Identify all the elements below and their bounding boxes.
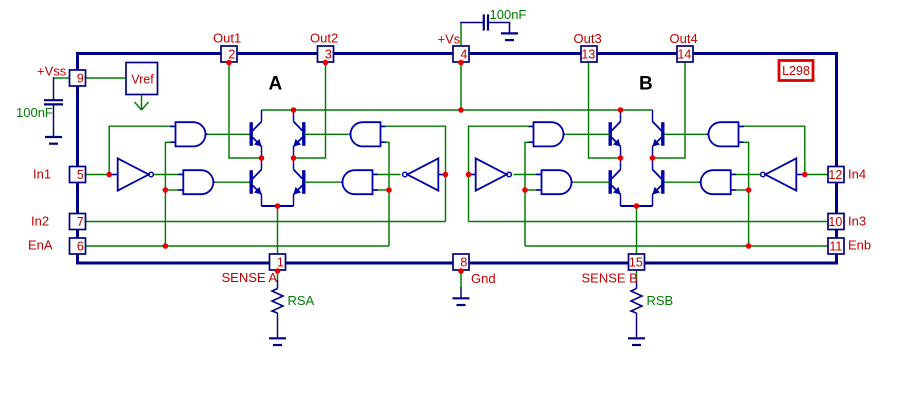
svg-text:Out1: Out1 bbox=[213, 31, 241, 46]
inverter U6A (In2) bbox=[403, 158, 445, 190]
wire In4 up branch bbox=[744, 126, 805, 174]
node Enb junction bbox=[746, 243, 752, 249]
node EnA branch to U5A bbox=[386, 187, 392, 193]
wire Out1 pin2 down bbox=[229, 63, 262, 159]
svg-text:Out4: Out4 bbox=[670, 31, 698, 46]
svg-text:Vref: Vref bbox=[131, 73, 154, 87]
transistor Q5 (B top-left) bbox=[609, 122, 621, 147]
svg-text:L298: L298 bbox=[782, 64, 810, 78]
pin 4 box bbox=[453, 46, 469, 62]
Q2 emitter lead bbox=[293, 147, 295, 159]
and-gate U2A top-left bbox=[170, 122, 208, 146]
svg-text:EnA: EnA bbox=[28, 238, 53, 253]
ground for C1 bbox=[45, 137, 62, 144]
and-gate U3B bottom-right bbox=[699, 170, 737, 194]
pin 6 box bbox=[70, 238, 86, 254]
Q5 emitter lead bbox=[620, 147, 622, 159]
wire to U3A input 2 bbox=[165, 189, 178, 191]
transistor Q6 (B top-right) bbox=[653, 122, 665, 147]
RSA lower lead bbox=[277, 313, 279, 338]
node EnA branch to U3A bbox=[163, 187, 169, 193]
and-gate U4A top-right bbox=[349, 122, 387, 146]
wire Gnd pin down bbox=[460, 271, 462, 287]
node sense A pin bbox=[275, 268, 281, 274]
Q8 emitter lead bbox=[652, 195, 654, 207]
Q7 emitter lead bbox=[620, 195, 622, 207]
node Enb branch to U3B bbox=[746, 187, 752, 193]
wire inverter U6B out to U5B input 1 bbox=[514, 174, 537, 176]
svg-text:Gnd: Gnd bbox=[471, 271, 496, 286]
svg-text:A: A bbox=[269, 74, 283, 95]
pin 14 box bbox=[677, 46, 693, 62]
wire In2 line from pin 7 bbox=[86, 221, 446, 223]
wire U2A output to Q1 base bbox=[208, 133, 250, 135]
wire Out4 pin14 down bbox=[653, 63, 686, 159]
svg-text:Out3: Out3 bbox=[574, 31, 602, 46]
node pin 2 bbox=[226, 60, 232, 66]
svg-text:In4: In4 bbox=[848, 167, 866, 182]
Vref output arrow bbox=[135, 95, 149, 111]
pin 9 box bbox=[70, 70, 86, 86]
wire U2B output to Q5 base bbox=[665, 133, 707, 135]
resistor RSA bbox=[272, 289, 283, 314]
resistor RSA lead bbox=[277, 280, 279, 289]
svg-text:RSA: RSA bbox=[288, 293, 315, 308]
node EnA junction bbox=[163, 243, 169, 249]
pin 15 box bbox=[629, 254, 645, 270]
wire In1 pin5 to inverter bbox=[86, 174, 112, 176]
node Gnd pin bbox=[458, 268, 464, 274]
node In1 junction bbox=[106, 172, 112, 178]
svg-text:10: 10 bbox=[828, 215, 842, 229]
pin 5 box bbox=[70, 167, 86, 183]
svg-text:14: 14 bbox=[677, 48, 691, 62]
svg-text:6: 6 bbox=[77, 240, 84, 254]
transistor Q8 (B bottom-right) bbox=[653, 170, 665, 195]
Q1 emitter lead bbox=[261, 147, 263, 159]
node In3 to inverter U6B input bbox=[466, 172, 472, 178]
capacitor C2 plates bbox=[484, 14, 488, 30]
wire Enb line from pin 11 bbox=[525, 245, 829, 247]
node In4 junction bbox=[802, 172, 808, 178]
wire U5B output to Q7 base bbox=[574, 181, 610, 183]
svg-text:13: 13 bbox=[581, 48, 595, 62]
pin 8 box bbox=[453, 254, 469, 270]
svg-text:SENSE B: SENSE B bbox=[582, 271, 638, 286]
svg-text:In3: In3 bbox=[848, 214, 866, 229]
Gnd symbol lead bbox=[460, 287, 462, 298]
resistor RSB lead bbox=[636, 280, 638, 289]
transistor Q2 (A top-right) bbox=[294, 122, 306, 147]
Q4 emitter lead bbox=[293, 195, 295, 207]
wire to U6B input bbox=[469, 174, 471, 176]
svg-text:9: 9 bbox=[77, 72, 84, 86]
svg-text:8: 8 bbox=[460, 256, 467, 270]
capacitor C2 lead left bbox=[460, 22, 483, 24]
wire +Vss to capacitor corner bbox=[54, 77, 70, 79]
wire inverter U1A out to U3A input 1 bbox=[154, 174, 179, 176]
node bridge B collector rail bbox=[618, 107, 624, 113]
wire EnA right vertical bbox=[385, 142, 389, 246]
and-gate U5B bottom-left bbox=[536, 170, 574, 194]
svg-text:100nF: 100nF bbox=[490, 7, 527, 22]
and-gate U3A bottom-left bbox=[178, 170, 216, 194]
wire Out3 pin13 down bbox=[589, 63, 621, 159]
Q2 collector lead bbox=[293, 110, 295, 122]
svg-text:Enb: Enb bbox=[848, 238, 871, 253]
inverter U1A input buffer (In1) bbox=[111, 158, 153, 190]
wire to U3B input 2 bbox=[736, 189, 749, 191]
node bridge A sense junction bbox=[275, 203, 281, 209]
transistor Q3 (A bottom-left) bbox=[250, 170, 262, 195]
wire to U5B input 2 bbox=[525, 189, 536, 191]
wire In1 up branch bbox=[109, 126, 170, 174]
IC body outline L298 bbox=[78, 54, 837, 264]
svg-text:4: 4 bbox=[460, 48, 467, 62]
wire In3 riser bbox=[469, 126, 530, 221]
wire inverter U6A out to U5A input 1 bbox=[378, 174, 401, 176]
svg-text:3: 3 bbox=[325, 48, 332, 62]
RSB lower lead bbox=[636, 313, 638, 338]
svg-text:12: 12 bbox=[828, 168, 842, 182]
wire In4 pin12 to inverter bbox=[803, 174, 829, 176]
node bridge A left output bbox=[259, 155, 265, 161]
svg-text:In1: In1 bbox=[33, 167, 51, 182]
wire U3A output to Q3 base bbox=[215, 181, 249, 183]
inverter U1B input buffer (In4) bbox=[761, 158, 803, 190]
Q1 collector lead bbox=[261, 110, 263, 122]
wire +Vs rail to bridge B bbox=[461, 109, 653, 111]
node Enb branch to U5B bbox=[522, 187, 528, 193]
svg-text:+Vss: +Vss bbox=[37, 64, 67, 79]
pin 13 box bbox=[581, 46, 597, 62]
svg-text:+Vs: +Vs bbox=[438, 32, 461, 47]
and-gate U4B top-left bbox=[528, 122, 566, 146]
wire sense B stub bbox=[636, 270, 638, 280]
wire In3 line from pin 10 bbox=[469, 221, 829, 223]
transistor Q1 (A top-left) bbox=[250, 122, 262, 147]
ground for RSB bbox=[628, 338, 645, 345]
pin 3 box bbox=[318, 46, 334, 62]
Vref box bbox=[126, 63, 158, 95]
resistor RSB bbox=[631, 289, 642, 314]
wire to U5A input 2 bbox=[378, 189, 389, 191]
svg-text:7: 7 bbox=[77, 215, 84, 229]
wire U4A output to Q2 base bbox=[305, 133, 349, 135]
pin 2 box bbox=[221, 46, 237, 62]
wire sense B down bbox=[636, 206, 638, 254]
pin 10 box bbox=[828, 214, 844, 230]
transistor Q4 (A bottom-right) bbox=[294, 170, 306, 195]
wire U4B output to Q5 base bbox=[566, 133, 610, 135]
svg-text:B: B bbox=[639, 74, 653, 95]
node pin 3 bbox=[323, 60, 329, 66]
capacitor C1 plates bbox=[44, 100, 63, 104]
bridge A emitter rail bbox=[262, 205, 294, 207]
pin 11 box bbox=[828, 238, 844, 254]
wire In2 riser bbox=[385, 126, 446, 221]
wire +Vs pin to capacitor C2 bbox=[460, 23, 462, 47]
pin 1 box bbox=[270, 254, 286, 270]
pin 7 box bbox=[70, 214, 86, 230]
node pin 4 bbox=[458, 60, 464, 66]
Q6 emitter lead bbox=[652, 147, 654, 159]
wire Enb right vertical bbox=[525, 142, 529, 246]
wire U3B output to Q7 base bbox=[665, 181, 699, 183]
node +Vs rail junction bbox=[458, 107, 464, 113]
Q5 collector lead bbox=[620, 110, 622, 122]
wire Enb vertical to gate inputs bbox=[744, 142, 749, 246]
svg-text:RSB: RSB bbox=[647, 293, 674, 308]
svg-text:In2: In2 bbox=[31, 214, 49, 229]
inverter U6B (In3) bbox=[469, 158, 511, 190]
Q3 emitter lead bbox=[261, 195, 263, 207]
node bridge B right output bbox=[650, 155, 656, 161]
svg-text:11: 11 bbox=[829, 240, 842, 254]
svg-text:100nF: 100nF bbox=[16, 105, 53, 120]
wire sense A down bbox=[277, 206, 279, 254]
wire U5A output to Q4 base bbox=[305, 181, 341, 183]
ground for RSA bbox=[269, 338, 286, 345]
node bridge A right output bbox=[291, 155, 297, 161]
and-gate U2B top-right bbox=[707, 122, 745, 146]
capacitor C1 100nF lead bbox=[53, 77, 55, 100]
wire +Vs rail to bridge A bbox=[262, 109, 462, 111]
Q6 collector lead bbox=[652, 110, 654, 122]
node In2 to inverter U6A input bbox=[443, 172, 449, 178]
wire to U6A input bbox=[444, 174, 446, 176]
svg-text:1: 1 bbox=[277, 256, 284, 270]
and-gate U5A bottom-right bbox=[341, 170, 379, 194]
Q4 collector lead bbox=[293, 158, 295, 170]
Q7 collector lead bbox=[620, 158, 622, 170]
wire +Vs down from pin 4 bbox=[460, 63, 462, 111]
ground for C2 bbox=[501, 33, 518, 40]
Q3 collector lead bbox=[261, 158, 263, 170]
wire pin9 to Vref bbox=[86, 77, 127, 79]
svg-text:2: 2 bbox=[228, 48, 235, 62]
node bridge B sense junction bbox=[634, 203, 640, 209]
wire inverter U1B out to U3B input 1 bbox=[736, 174, 761, 176]
transistor Q7 (B bottom-left) bbox=[609, 170, 621, 195]
wire EnA vertical to gate inputs bbox=[165, 142, 170, 246]
Q8 collector lead bbox=[652, 158, 654, 170]
L298 part label box bbox=[779, 61, 813, 81]
wire EnA line from pin 6 bbox=[86, 245, 390, 247]
svg-text:SENSE A: SENSE A bbox=[222, 270, 278, 285]
node bridge A collector rail bbox=[291, 107, 297, 113]
svg-text:15: 15 bbox=[629, 256, 643, 270]
capacitor C1 lower lead bbox=[53, 104, 55, 137]
wire sense A stub bbox=[277, 270, 279, 280]
svg-text:Out2: Out2 bbox=[310, 31, 338, 46]
ground for Gnd pin bbox=[453, 298, 470, 305]
wire Out2 pin3 down bbox=[294, 63, 326, 159]
pin 12 box bbox=[828, 167, 844, 183]
capacitor C2 lead right bbox=[488, 23, 510, 34]
bridge B emitter rail bbox=[621, 205, 653, 207]
node bridge B left output bbox=[618, 155, 624, 161]
svg-text:5: 5 bbox=[77, 168, 84, 182]
